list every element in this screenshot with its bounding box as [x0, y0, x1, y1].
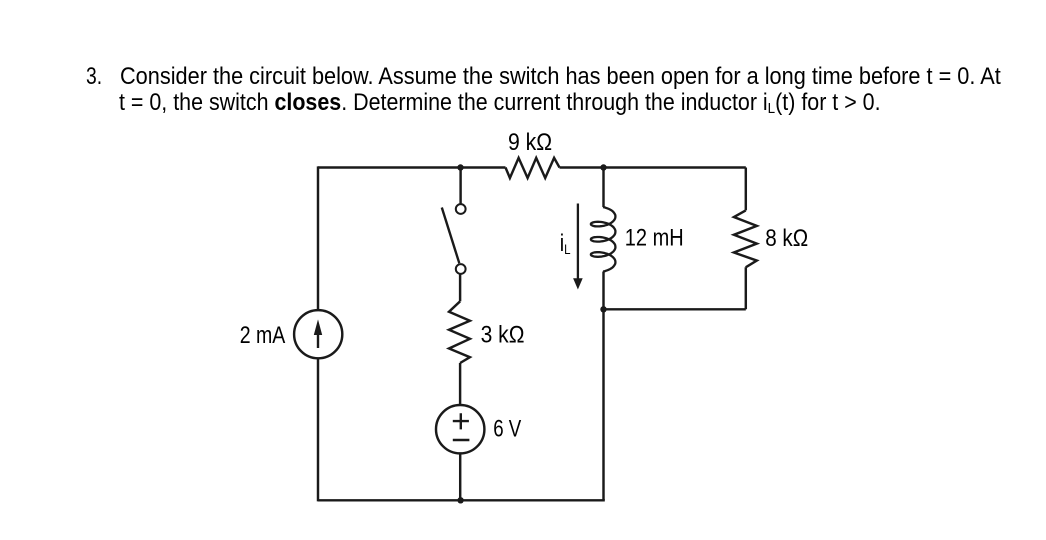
svg-text:12 mH: 12 mH: [625, 224, 684, 251]
switch terminal bottom circle: [456, 264, 466, 274]
wire inductor to bottom: [602, 272, 604, 501]
inductor L1 coil: [591, 207, 616, 271]
wire middle branch top: [459, 168, 461, 205]
node dot top switch: [457, 164, 463, 170]
node dot bottom: [457, 497, 463, 503]
svg-text:9 kΩ: 9 kΩ: [508, 128, 552, 156]
voltage source V1 circle: [436, 405, 484, 453]
problem text line 2: [119, 91, 881, 116]
wire left vertical: [317, 166, 319, 501]
resistor R 9k zigzag: [506, 158, 560, 178]
switch terminal top circle: [456, 204, 466, 214]
wire inductor branch top: [602, 168, 604, 208]
svg-text:2 mA: 2 mA: [240, 321, 286, 348]
wire right loop: [604, 168, 746, 310]
switch blade: [442, 208, 460, 264]
svg-text:iL: iL: [560, 229, 571, 257]
voltage source minus sign: [453, 439, 470, 441]
problem number: [86, 65, 102, 89]
node dot inductor bottom: [600, 306, 606, 312]
problem text line 1: [120, 65, 1001, 89]
current source arrow: [317, 330, 319, 348]
resistor R 3k zigzag: [449, 301, 470, 363]
wire switch to resistor: [459, 274, 461, 301]
wire resistor to source V1: [459, 363, 461, 405]
svg-text:6 V: 6 V: [493, 415, 522, 442]
wire source to bottom: [459, 453, 461, 500]
voltage source plus sign: [453, 413, 469, 429]
wire bottom horizontal: [318, 499, 605, 501]
current arrow iL head: [573, 278, 583, 289]
current arrow iL line: [577, 204, 579, 281]
node dot top inductor: [600, 164, 606, 170]
resistor R 8k zigzag: [734, 210, 757, 267]
svg-text:3 kΩ: 3 kΩ: [481, 321, 525, 348]
current source I1 circle: [294, 310, 342, 358]
wire top horizontal: [318, 166, 746, 168]
svg-text:8 kΩ: 8 kΩ: [765, 224, 808, 251]
